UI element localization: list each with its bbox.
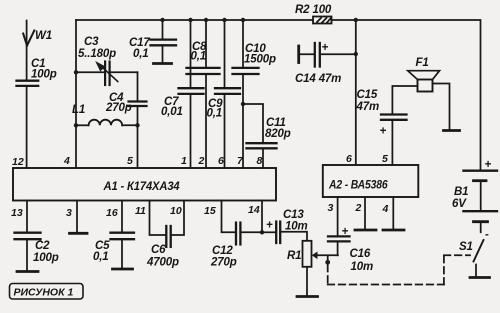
svg-text:12: 12 xyxy=(12,156,24,168)
svg-text:6: 6 xyxy=(346,153,352,165)
wire: top supply bus left of R2 xyxy=(76,19,313,21)
svg-text:10m: 10m xyxy=(285,221,308,233)
antenna W1 xyxy=(23,21,34,81)
svg-text:4700p: 4700p xyxy=(146,257,179,269)
wire: C1 to pin 12 xyxy=(26,87,28,169)
svg-text:1500p: 1500p xyxy=(244,54,276,66)
svg-text:1: 1 xyxy=(181,155,187,167)
wire: C13 to R1 xyxy=(281,232,307,241)
svg-text:0,1: 0,1 xyxy=(93,251,109,263)
op-amp U2: IC A2 BA5386 xyxy=(323,165,419,197)
svg-text:6V: 6V xyxy=(452,198,467,210)
wire: pin 6 line up to supply xyxy=(355,20,357,165)
ground pin2 xyxy=(355,229,376,232)
svg-text:100p: 100p xyxy=(33,252,59,264)
svg-text:47m: 47m xyxy=(356,101,380,113)
svg-text:C13: C13 xyxy=(283,209,304,221)
svg-text:C16: C16 xyxy=(350,248,371,260)
svg-text:F1: F1 xyxy=(416,57,429,69)
svg-text:C12: C12 xyxy=(212,245,233,257)
wire: pin 11 to C6 xyxy=(150,201,166,236)
wire: top supply bus right of R2 to right rail down to battery xyxy=(332,20,481,171)
ground R1 xyxy=(297,295,318,298)
svg-text:B1: B1 xyxy=(454,186,468,198)
svg-text:0,01: 0,01 xyxy=(161,106,183,118)
svg-text:4: 4 xyxy=(382,203,389,215)
svg-text:0,1: 0,1 xyxy=(191,51,207,63)
node xyxy=(222,18,226,22)
ground speaker xyxy=(444,129,460,132)
capacitor C10 xyxy=(233,68,259,74)
svg-text:2: 2 xyxy=(198,155,205,167)
wire: pin 4 (A2) stub xyxy=(392,197,394,229)
svg-text:16: 16 xyxy=(106,207,118,219)
wire: pin 2 (A2) stub xyxy=(364,197,366,229)
wire: tank right edge / pin 5 xyxy=(137,72,139,101)
svg-text:C14 47m: C14 47m xyxy=(295,73,341,85)
wire: pin 6 line xyxy=(224,20,226,88)
svg-text:R1: R1 xyxy=(287,250,301,262)
wire: pin 14 xyxy=(261,201,263,233)
svg-text:+: + xyxy=(342,226,349,238)
capacitor C13 xyxy=(276,222,280,243)
capacitor C9 xyxy=(215,88,240,94)
ground C17 xyxy=(154,62,172,65)
capacitor C14 xyxy=(299,43,356,67)
svg-text:L1: L1 xyxy=(72,104,85,116)
capacitor C4 xyxy=(129,102,147,107)
node: dashed link dot xyxy=(327,255,329,260)
ground pin4 xyxy=(383,229,404,232)
node: L1 right junction xyxy=(135,123,139,127)
figure label box xyxy=(10,284,84,300)
wire: pin 3 (A2) to C16 xyxy=(337,197,339,236)
wire: C11 branch to pin 8 xyxy=(243,104,263,143)
wire: pin 13 xyxy=(26,201,28,233)
svg-text:820p: 820p xyxy=(265,128,291,140)
svg-text:C2: C2 xyxy=(35,240,50,252)
op-amp U1: IC A1 K174XA34 xyxy=(13,168,276,201)
capacitor C16 xyxy=(328,236,350,255)
svg-text:4: 4 xyxy=(63,155,70,167)
capacitor C15 xyxy=(381,115,407,120)
svg-text:3: 3 xyxy=(328,202,334,214)
wire: pin 15 to C12 xyxy=(222,201,235,233)
node: supply junction xyxy=(354,18,358,22)
svg-text:+: + xyxy=(322,42,329,54)
svg-text:S1: S1 xyxy=(459,241,473,253)
capacitor C11 xyxy=(247,143,277,148)
node: C3 left junction xyxy=(74,70,78,74)
svg-text:+: + xyxy=(485,159,492,171)
capacitor C1 xyxy=(17,81,39,86)
node xyxy=(204,18,208,22)
node: C14 junction xyxy=(354,52,358,56)
ground pin3 xyxy=(70,232,88,235)
node xyxy=(160,18,164,22)
svg-text:6: 6 xyxy=(218,155,224,167)
wire: C12 to pin 14 xyxy=(242,231,262,233)
capacitor C2 xyxy=(15,233,41,271)
svg-text:100p: 100p xyxy=(31,69,57,81)
svg-text:C15: C15 xyxy=(357,89,378,101)
capacitor C12 xyxy=(236,223,240,245)
svg-text:+: + xyxy=(380,126,387,138)
svg-text:A1 - К174ХА34: A1 - К174ХА34 xyxy=(103,181,181,193)
wire: pin 3 stub xyxy=(76,201,78,233)
wire: pin 7 line xyxy=(242,20,244,67)
svg-text:11: 11 xyxy=(135,205,146,217)
wire: pin 2 line xyxy=(205,20,207,67)
svg-text:R2 100: R2 100 xyxy=(295,4,332,16)
wire: speaker right lead to ground xyxy=(433,84,450,130)
node: pin7/C11 branch xyxy=(241,102,245,106)
capacitor C8 xyxy=(187,68,220,74)
svg-text:C6: C6 xyxy=(151,244,166,256)
node: pin14/C13 junction xyxy=(260,230,264,234)
svg-text:10m: 10m xyxy=(351,261,374,273)
wire: dashed mechanical link xyxy=(328,255,470,284)
svg-text:C3: C3 xyxy=(84,36,99,48)
capacitor C7 xyxy=(179,88,204,94)
resistor R2 xyxy=(313,17,332,24)
svg-text:0,1: 0,1 xyxy=(207,108,223,120)
ground S1 xyxy=(470,276,490,279)
svg-text:14: 14 xyxy=(248,204,260,216)
svg-text:10: 10 xyxy=(170,205,182,217)
svg-text:8: 8 xyxy=(257,155,263,167)
svg-text:5: 5 xyxy=(127,155,133,167)
wire: C6 to pin 10 xyxy=(172,201,184,236)
speaker F1 xyxy=(408,71,440,92)
capacitor C5 xyxy=(111,233,135,268)
node: L1 left junction xyxy=(74,123,78,127)
capacitor C6 xyxy=(166,226,170,247)
node xyxy=(188,18,192,22)
ground C5 xyxy=(113,268,133,271)
switch S1 xyxy=(474,240,484,277)
svg-text:2: 2 xyxy=(355,202,362,214)
svg-text:A2 - ВА5386: A2 - ВА5386 xyxy=(328,180,388,192)
wire: pin 1 line xyxy=(190,20,192,88)
potentiometer R1 xyxy=(303,241,312,296)
svg-text:13: 13 xyxy=(11,207,23,219)
svg-text:270p: 270p xyxy=(210,257,237,269)
svg-text:-: - xyxy=(485,229,489,241)
svg-text:0,1: 0,1 xyxy=(133,48,149,60)
wire: junction to C13 xyxy=(262,231,276,233)
svg-text:15: 15 xyxy=(204,205,216,217)
capacitor C3 (variable) xyxy=(76,61,138,85)
svg-text:270p: 270p xyxy=(105,102,132,114)
inductor L1 xyxy=(76,120,138,126)
svg-text:РИСУНОК 1: РИСУНОК 1 xyxy=(14,287,74,299)
wire: R1 wiper to C16 xyxy=(312,252,338,260)
battery B1 xyxy=(464,171,498,233)
svg-text:5..180p: 5..180p xyxy=(78,48,116,60)
node xyxy=(241,18,245,22)
svg-text:3: 3 xyxy=(66,207,72,219)
wire: pin 5 line up / C15 xyxy=(391,120,393,165)
svg-text:5: 5 xyxy=(382,153,388,165)
wire: tank left edge / pin 4 xyxy=(75,20,77,168)
capacitor C17 xyxy=(151,20,177,63)
svg-text:W1: W1 xyxy=(35,30,52,42)
svg-text:+: + xyxy=(266,220,273,232)
ground C2 xyxy=(17,270,38,273)
wire: pin 16 xyxy=(121,201,123,233)
